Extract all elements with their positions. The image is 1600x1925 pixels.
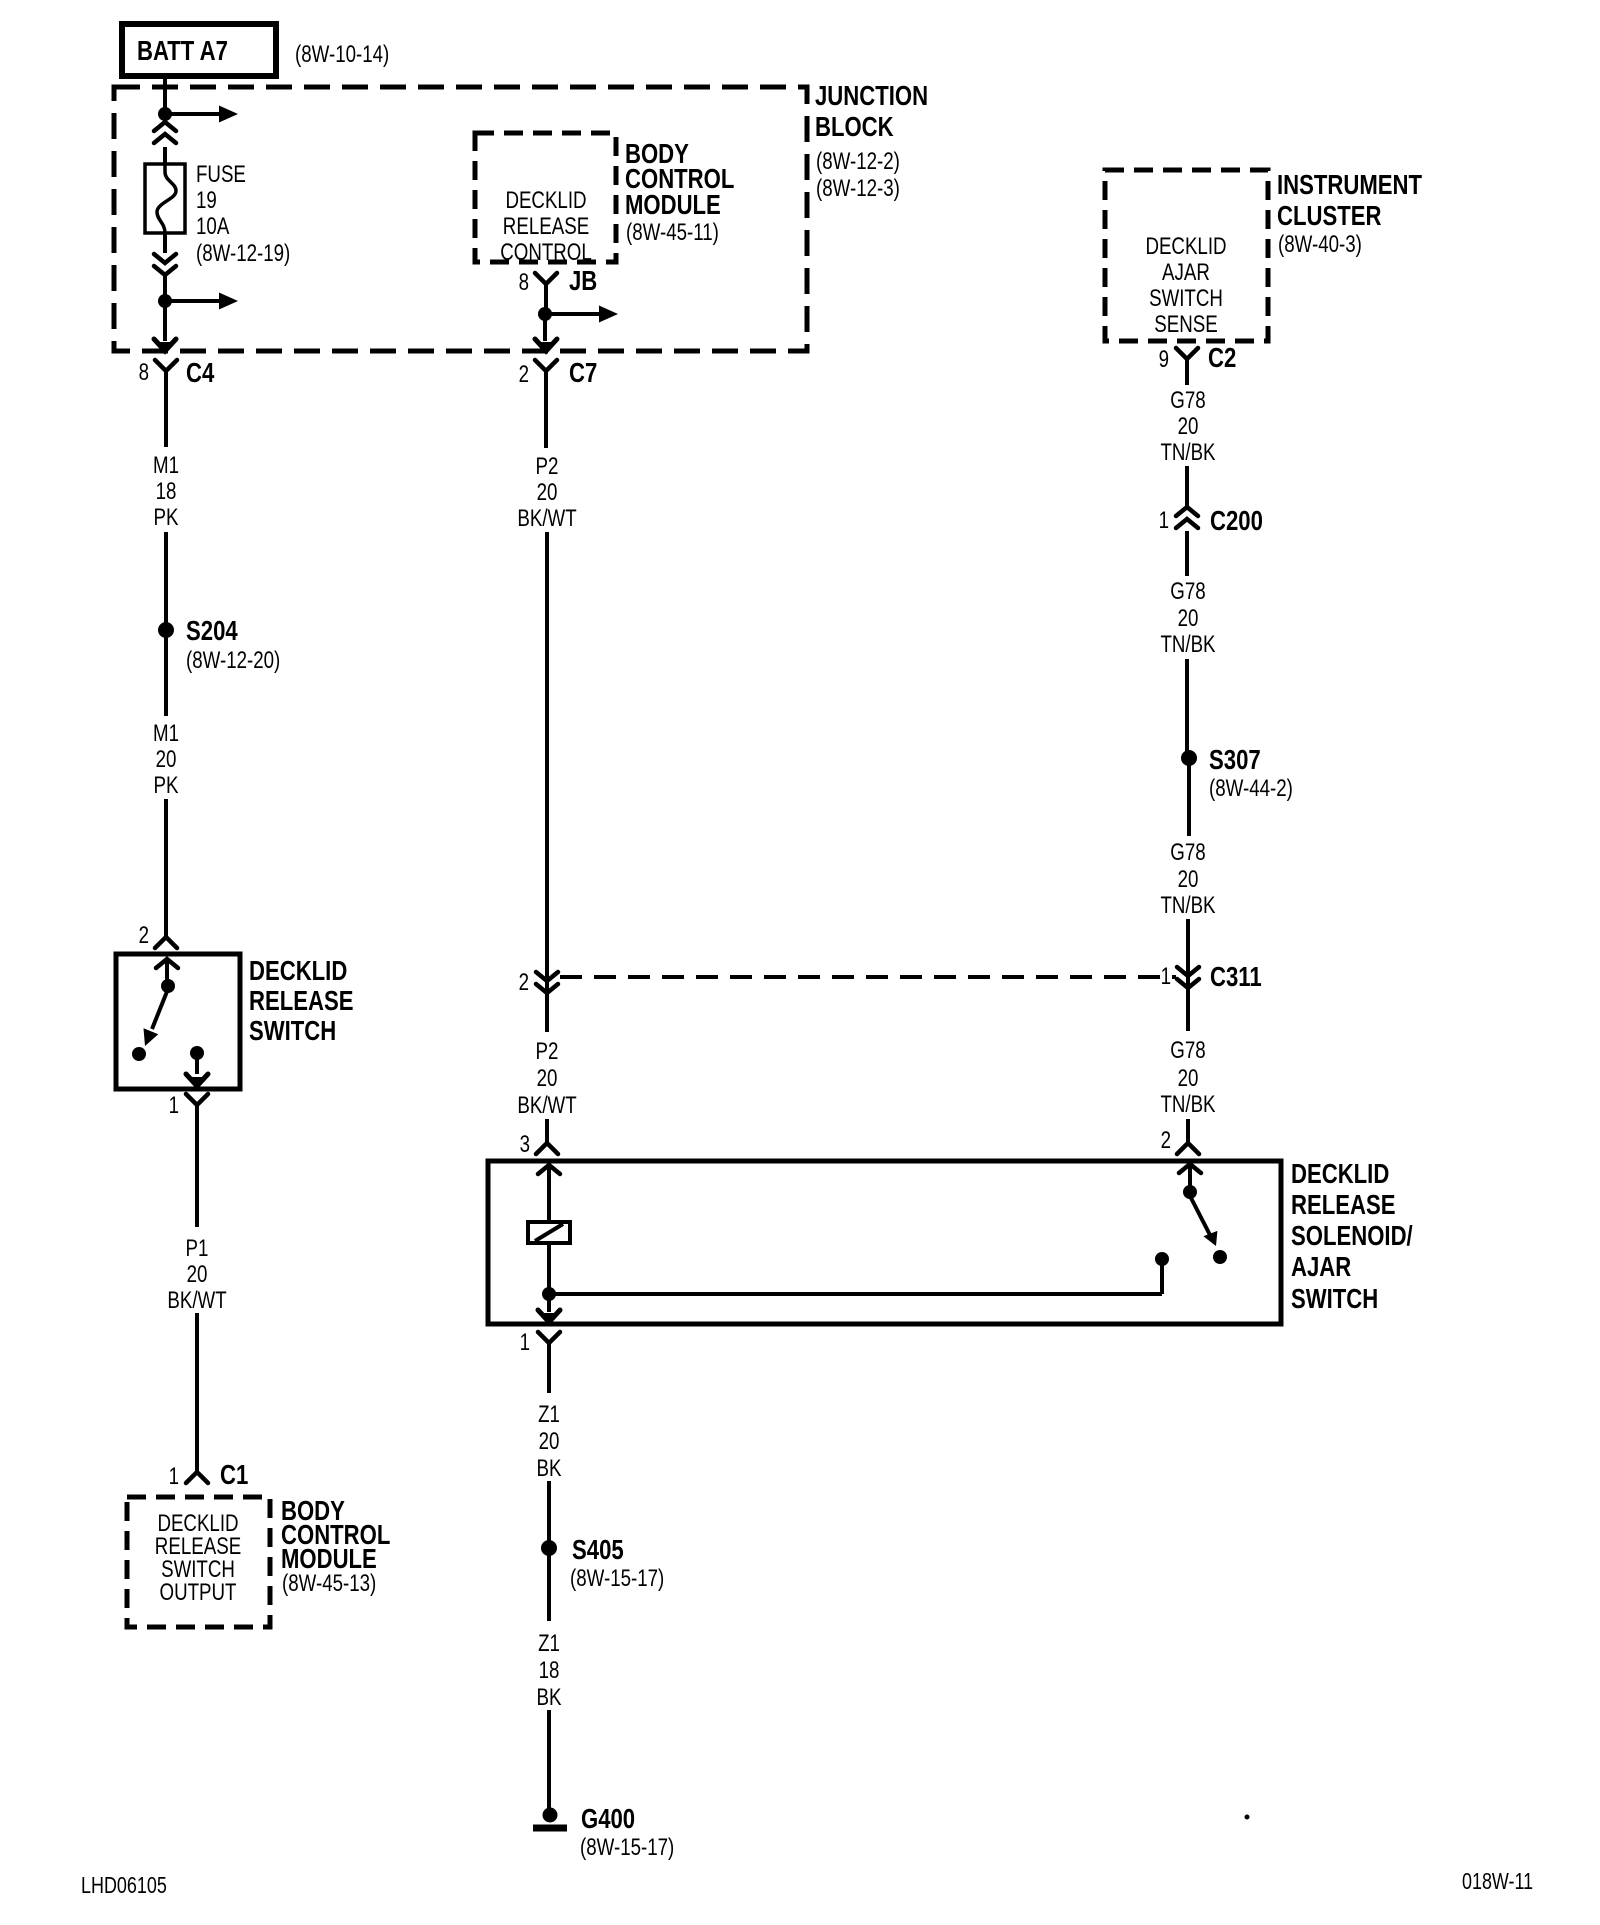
svg-text:20: 20	[537, 1065, 558, 1092]
svg-text:20: 20	[187, 1261, 208, 1288]
svg-text:BK/WT: BK/WT	[517, 505, 577, 532]
svg-text:BLOCK: BLOCK	[815, 111, 894, 142]
svg-text:(8W-15-17): (8W-15-17)	[570, 1565, 664, 1592]
svg-text:18: 18	[156, 478, 177, 505]
svg-text:8: 8	[139, 359, 149, 386]
svg-text:DECKLID: DECKLID	[1145, 233, 1226, 260]
svg-text:1: 1	[1159, 507, 1169, 534]
svg-text:20: 20	[1178, 413, 1199, 440]
svg-text:1: 1	[1161, 963, 1171, 990]
svg-text:OUTPUT: OUTPUT	[160, 1579, 237, 1606]
svg-text:20: 20	[1178, 1065, 1199, 1092]
svg-text:S405: S405	[572, 1534, 624, 1565]
svg-text:BK/WT: BK/WT	[517, 1092, 577, 1119]
svg-text:TN/BK: TN/BK	[1160, 631, 1215, 658]
svg-text:P2: P2	[536, 1038, 559, 1065]
svg-text:AJAR: AJAR	[1291, 1251, 1351, 1282]
svg-text:JB: JB	[569, 265, 597, 296]
svg-text:SWITCH: SWITCH	[249, 1015, 336, 1046]
svg-text:20: 20	[1178, 866, 1199, 893]
svg-text:C311: C311	[1210, 961, 1262, 992]
svg-text:TN/BK: TN/BK	[1160, 892, 1215, 919]
svg-text:FUSE: FUSE	[196, 161, 246, 188]
svg-text:JUNCTION: JUNCTION	[815, 80, 928, 111]
svg-text:DECKLID: DECKLID	[1291, 1158, 1389, 1189]
svg-text:2: 2	[1161, 1127, 1171, 1154]
svg-text:RELEASE: RELEASE	[503, 213, 589, 240]
svg-text:S204: S204	[186, 615, 238, 646]
svg-text:TN/BK: TN/BK	[1160, 439, 1215, 466]
svg-text:2: 2	[519, 361, 529, 388]
svg-text:(8W-44-2): (8W-44-2)	[1209, 775, 1293, 802]
svg-text:(8W-12-20): (8W-12-20)	[186, 647, 280, 674]
svg-text:BATT A7: BATT A7	[137, 35, 228, 66]
svg-text:1: 1	[169, 1463, 179, 1490]
svg-text:G78: G78	[1170, 1037, 1205, 1064]
svg-text:(8W-45-11): (8W-45-11)	[626, 219, 719, 246]
svg-text:INSTRUMENT: INSTRUMENT	[1277, 169, 1422, 200]
svg-text:(8W-12-2): (8W-12-2)	[816, 148, 900, 175]
svg-text:1: 1	[520, 1329, 530, 1356]
svg-text:8: 8	[519, 269, 529, 296]
svg-text:018W-11: 018W-11	[1462, 1868, 1533, 1894]
svg-text:RELEASE: RELEASE	[1291, 1189, 1396, 1220]
svg-text:CLUSTER: CLUSTER	[1277, 200, 1382, 231]
svg-text:G400: G400	[581, 1803, 635, 1834]
svg-text:BK: BK	[537, 1455, 562, 1482]
svg-text:DECKLID: DECKLID	[249, 955, 347, 986]
svg-text:2: 2	[519, 969, 529, 996]
svg-text:(8W-10-14): (8W-10-14)	[295, 41, 389, 68]
svg-text:G78: G78	[1170, 387, 1205, 414]
svg-text:P2: P2	[536, 453, 559, 480]
svg-text:(8W-40-3): (8W-40-3)	[1278, 231, 1362, 258]
svg-text:PK: PK	[154, 504, 179, 531]
svg-text:C1: C1	[220, 1459, 248, 1490]
svg-text:3: 3	[520, 1131, 530, 1158]
svg-text:(8W-12-3): (8W-12-3)	[816, 175, 900, 202]
svg-text:19: 19	[196, 187, 217, 214]
svg-text:Z1: Z1	[538, 1401, 560, 1428]
svg-text:CONTROL: CONTROL	[500, 239, 592, 266]
svg-text:M1: M1	[153, 452, 179, 479]
svg-text:C7: C7	[569, 357, 597, 388]
svg-text:1: 1	[169, 1092, 179, 1119]
svg-text:20: 20	[537, 479, 558, 506]
svg-text:20: 20	[156, 746, 177, 773]
svg-text:RELEASE: RELEASE	[249, 985, 354, 1016]
svg-text:PK: PK	[154, 772, 179, 799]
svg-text:2: 2	[139, 922, 149, 949]
svg-text:SWITCH: SWITCH	[1149, 285, 1223, 312]
svg-text:9: 9	[1159, 346, 1169, 373]
svg-text:LHD06105: LHD06105	[81, 1872, 167, 1898]
svg-text:AJAR: AJAR	[1162, 259, 1210, 286]
svg-text:TN/BK: TN/BK	[1160, 1091, 1215, 1118]
svg-text:Z1: Z1	[538, 1630, 560, 1657]
svg-text:BK/WT: BK/WT	[167, 1287, 227, 1314]
svg-text:20: 20	[1178, 605, 1199, 632]
svg-text:MODULE: MODULE	[625, 189, 721, 220]
svg-text:G78: G78	[1170, 578, 1205, 605]
svg-text:C4: C4	[186, 357, 215, 388]
svg-text:G78: G78	[1170, 839, 1205, 866]
svg-text:BK: BK	[537, 1684, 562, 1711]
svg-text:(8W-12-19): (8W-12-19)	[196, 240, 290, 267]
svg-text:20: 20	[539, 1428, 560, 1455]
svg-text:SWITCH: SWITCH	[1291, 1283, 1378, 1314]
svg-text:18: 18	[539, 1657, 560, 1684]
svg-text:(8W-15-17): (8W-15-17)	[580, 1834, 674, 1861]
svg-text:(8W-45-13): (8W-45-13)	[282, 1570, 376, 1597]
svg-text:DECKLID: DECKLID	[505, 187, 586, 214]
svg-text:SENSE: SENSE	[1154, 311, 1218, 338]
svg-text:C200: C200	[1210, 505, 1263, 536]
svg-text:S307: S307	[1209, 744, 1261, 775]
svg-text:C2: C2	[1208, 342, 1236, 373]
svg-text:P1: P1	[186, 1235, 209, 1262]
svg-text:SOLENOID/: SOLENOID/	[1291, 1220, 1413, 1251]
svg-text:M1: M1	[153, 720, 179, 747]
svg-text:10A: 10A	[196, 213, 229, 240]
